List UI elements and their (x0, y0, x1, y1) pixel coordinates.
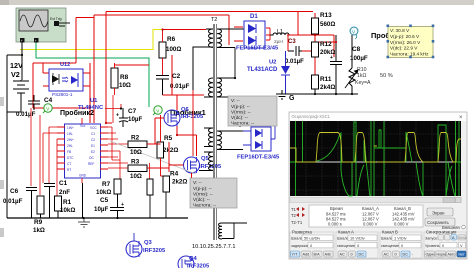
svg-text:C2: C2 (172, 73, 181, 80)
svg-text:R2: R2 (131, 135, 140, 142)
svg-text:Норм.: Норм. (437, 253, 447, 257)
wire: black output bottom rail (287, 93, 358, 95)
shunt reg U2 TL431ACD (247, 51, 290, 94)
resistor R2 10 (128, 135, 147, 157)
svg-text:10kΩ: 10kΩ (60, 207, 75, 214)
ground G (276, 90, 295, 102)
scope screen (290, 121, 461, 196)
IC U1 TL494 (57, 98, 108, 183)
svg-text:560Ω: 560Ω (320, 21, 335, 28)
wire: U1 GND drop (82, 183, 84, 218)
svg-text:R8: R8 (120, 74, 129, 81)
svg-text:Запуск:: Запуск: (425, 237, 438, 241)
svg-text:0.01µF: 0.01µF (16, 111, 36, 118)
svg-text:T2: T2 (291, 213, 297, 218)
svg-text:10kΩ: 10kΩ (96, 189, 111, 196)
svg-text:R6: R6 (167, 36, 176, 43)
svg-text:10Ω: 10Ω (130, 149, 142, 156)
resistor R8 10 (111, 63, 149, 95)
scope panel Канал A (336, 230, 378, 259)
MOSFET Q6 IRF3205 (164, 107, 204, 126)
svg-text:0: 0 (351, 253, 353, 257)
svg-text:Канал_A: Канал_A (362, 206, 379, 211)
svg-text:PS2801-1: PS2801-1 (52, 92, 73, 97)
svg-text:100Ω: 100Ω (166, 46, 181, 53)
svg-text:Проб: Проб (371, 31, 390, 40)
svg-text:50 us/Div: 50 us/Div (304, 236, 320, 241)
svg-text:C8: C8 (352, 46, 361, 53)
svg-text:V(dc): --: V(dc): -- (193, 197, 210, 202)
svg-text:G: G (289, 95, 295, 102)
svg-text:Экран: Экран (432, 210, 445, 215)
svg-text:R13: R13 (320, 12, 332, 19)
wire: black battery/ground runs (7, 42, 22, 218)
wire: red output rail right (266, 13, 336, 75)
svg-text:C4: C4 (44, 97, 53, 104)
svg-text:T2: T2 (211, 17, 217, 23)
svg-text:V: 30.8 V: V: 30.8 V (390, 28, 410, 33)
svg-text:GND: GND (79, 174, 87, 178)
svg-text:1kΩ: 1kΩ (357, 73, 366, 79)
MOSFET Q4 IRF3205 (178, 256, 210, 268)
capacitor C1 2nF (44, 180, 70, 218)
wire: mid verticals to rail (150, 192, 166, 218)
svg-text:VCC: VCC (90, 126, 97, 130)
svg-text:C5: C5 (100, 197, 109, 204)
svg-text:V: V (156, 108, 159, 113)
trace channel B yellow (290, 133, 461, 163)
svg-text:C6: C6 (10, 188, 19, 195)
svg-text:U12: U12 (60, 62, 70, 68)
svg-text:+: + (330, 55, 333, 61)
capacitor C5 10uF (94, 194, 124, 218)
svg-text:10Ω: 10Ω (119, 82, 131, 89)
svg-text:V(p-p): --: V(p-p): -- (193, 186, 212, 191)
svg-text:1 V/Div: 1 V/Div (394, 236, 407, 241)
svg-text:×: × (459, 115, 463, 121)
svg-text:Q4: Q4 (189, 256, 198, 262)
svg-text:Уровень:: Уровень: (425, 244, 441, 248)
MOSFET Q3 IRF3205 (126, 233, 166, 257)
svg-text:1IN-: 1IN- (67, 132, 73, 136)
svg-text:0.000 V: 0.000 V (363, 222, 378, 227)
resistor R7 10k (96, 179, 121, 196)
svg-text:A/B: A/B (325, 253, 332, 257)
svg-text:50 %: 50 % (380, 73, 393, 79)
svg-text:DC: DC (359, 253, 365, 257)
svg-text:E2: E2 (91, 150, 95, 154)
svg-text:2k4Ω: 2k4Ω (320, 84, 335, 91)
svg-text:10µF: 10µF (94, 206, 108, 213)
svg-text:12V: 12V (10, 61, 23, 70)
diode pack D1 FEP16DT top (234, 14, 279, 52)
scope readout table (309, 205, 423, 227)
svg-text:RT: RT (67, 168, 71, 172)
svg-text:Нет: Нет (459, 253, 465, 257)
wire: red 12V rail top-left (33, 12, 313, 124)
optocoupler U12 PS2801-1 (49, 62, 83, 97)
inductor L1 2uH (270, 29, 291, 45)
svg-text:V(rms): --: V(rms): -- (193, 192, 213, 197)
svg-text:Время: Время (330, 206, 343, 211)
svg-text:V: --: V: -- (231, 98, 240, 103)
svg-text:D1: D1 (250, 14, 258, 20)
svg-text:DC: DC (403, 253, 409, 257)
svg-text:Частота: --: Частота: -- (231, 121, 255, 126)
capacitor C4 0.01uF (16, 95, 53, 118)
svg-text:10Ω: 10Ω (130, 173, 142, 180)
svg-text:V(dc): --: V(dc): -- (231, 115, 248, 120)
resistor R5 2k2 (157, 115, 178, 176)
svg-text:Развертка: Развертка (292, 230, 312, 235)
svg-text:FEP16DT-E3/45: FEP16DT-E3/45 (236, 46, 279, 52)
svg-text:Внеш: Внеш (458, 236, 467, 240)
svg-text:Осциллограф-XSC1: Осциллограф-XSC1 (292, 114, 331, 119)
svg-text:C1: C1 (91, 132, 95, 136)
tooltip probe2 values (190, 178, 237, 208)
svg-text:10.10.25.25.7.7.1: 10.10.25.25.7.7.1 (192, 244, 236, 250)
svg-text:R5: R5 (164, 135, 173, 142)
ground (78, 218, 90, 227)
scope scrollbar (290, 198, 461, 203)
svg-text:V: V (46, 106, 49, 111)
selection drag line (110, 141, 196, 174)
resistor R12 20k (312, 41, 336, 57)
svg-text:R7: R7 (102, 181, 111, 188)
wire: red mid column (106, 55, 204, 123)
wire: red TL494 pin drops left (31, 95, 150, 196)
svg-text:REF: REF (88, 162, 94, 166)
probe measurement box (yellow) (387, 25, 435, 59)
svg-text:2k2Ω: 2k2Ω (163, 147, 178, 154)
svg-text:0.01µF: 0.01µF (3, 198, 23, 205)
svg-text:+: + (21, 39, 23, 43)
svg-text:Канал_B: Канал_B (394, 206, 411, 211)
bottom ground rail (7, 217, 188, 219)
scope panel Развертка (290, 230, 334, 259)
svg-text:0.01µF: 0.01µF (285, 59, 304, 65)
svg-text:Q3: Q3 (144, 240, 153, 246)
wire: red Q5/Q6 drains (147, 95, 197, 181)
top toolbar strip (0, 0, 474, 5)
resistor R13 560 (312, 12, 336, 34)
svg-text:AC: AC (340, 253, 346, 257)
svg-text:E1: E1 (91, 144, 95, 148)
svg-text:V(rms): --: V(rms): -- (231, 110, 251, 115)
scope buttons right (427, 208, 453, 216)
svg-text:Key=A: Key=A (355, 80, 371, 86)
junction dots (21, 54, 122, 110)
wire: green scope channel A run (36, 42, 149, 107)
svg-text:V: V (460, 243, 463, 248)
svg-text:C1: C1 (59, 180, 68, 187)
svg-text:OC: OC (89, 156, 94, 160)
capacitor C2 0.01uF (156, 73, 190, 95)
oscilloscope icon XSC1 (16, 8, 70, 43)
svg-text:B/A: B/A (314, 253, 321, 257)
left edge artifacts (0, 97, 4, 106)
svg-text:2k2Ω: 2k2Ω (172, 179, 187, 186)
svg-text:CT: CT (67, 162, 71, 166)
svg-text:R12: R12 (320, 41, 332, 48)
svg-text:V(rms): 26.0 V: V(rms): 26.0 V (390, 40, 421, 45)
svg-text:10µF: 10µF (128, 116, 142, 123)
svg-text:U2: U2 (269, 60, 276, 66)
svg-text:1kΩ: 1kΩ (33, 227, 45, 234)
wire: yellow scope channel B run (20, 30, 162, 50)
diode pack D2 FEP16DT bottom (237, 110, 280, 161)
svg-text:R1: R1 (63, 199, 72, 206)
svg-text:Авто: Авто (448, 253, 456, 257)
tooltip probe1 values (228, 96, 277, 126)
svg-text:Vcc: Vcc (80, 124, 86, 128)
svg-text:V(dc): 22.9 V: V(dc): 22.9 V (390, 46, 418, 51)
svg-text:0.000 s: 0.000 s (328, 222, 342, 227)
svg-text:100µF: 100µF (350, 55, 368, 62)
svg-text:V2: V2 (11, 70, 20, 79)
svg-text:10 V/Div: 10 V/Div (350, 236, 365, 241)
svg-text:Add: Add (303, 253, 310, 257)
svg-text:0.01µF: 0.01µF (170, 83, 190, 90)
svg-text:Один.: Один. (426, 253, 436, 257)
capacitor C8 100uF (330, 35, 368, 94)
svg-text:V(p-p): 20.6 V: V(p-p): 20.6 V (390, 34, 420, 39)
battery V2 12V (10, 61, 29, 96)
svg-text:T2-T1: T2-T1 (291, 220, 303, 225)
svg-text:TL431ACD: TL431ACD (247, 67, 278, 73)
svg-text:Канал A: Канал A (338, 230, 354, 235)
svg-text:R11: R11 (320, 76, 332, 83)
svg-text:Синхронизация: Синхронизация (426, 230, 456, 235)
resistor R4 2k2 (163, 171, 187, 193)
svg-text:20kΩ: 20kΩ (320, 49, 335, 56)
transformer bottom winding (219, 223, 247, 239)
svg-text:Q6: Q6 (181, 107, 190, 113)
svg-text:Канал B: Канал B (382, 230, 398, 235)
svg-text:C3: C3 (288, 39, 296, 45)
probe Пробник2 (43, 104, 94, 117)
scope panel Синхронизация (424, 230, 467, 259)
svg-text:IRF3205: IRF3205 (181, 114, 204, 120)
svg-text:IRF3205: IRF3205 (187, 264, 210, 268)
svg-text:0: 0 (395, 253, 397, 257)
resistor R9 1k (33, 196, 45, 234)
svg-text:V(p-p): --: V(p-p): -- (231, 104, 250, 109)
svg-text:Y/T: Y/T (292, 253, 299, 257)
svg-text:DTC: DTC (67, 156, 74, 160)
svg-text:1IN+: 1IN+ (67, 126, 74, 130)
resistor R1 10k (55, 196, 76, 218)
svg-text:FB: FB (67, 150, 71, 154)
resistor bottom mid A (147, 179, 153, 195)
svg-text:+: + (116, 113, 119, 119)
capacitor C6 0.01uF (3, 188, 37, 219)
svg-text:T1: T1 (291, 207, 297, 212)
resistor R3 10 (128, 159, 147, 181)
MOSFET Q5 IRF3205 (184, 156, 223, 173)
svg-text:IRF3205: IRF3205 (143, 248, 166, 254)
svg-text:Частота: --: Частота: -- (193, 203, 217, 208)
svg-text:L1: L1 (277, 29, 283, 35)
transformer T2 (199, 17, 244, 240)
resistor R11 2k4 (312, 75, 336, 94)
svg-text:2µH: 2µH (274, 39, 283, 45)
resistor R6 100 (159, 30, 206, 76)
potentiometer R10 1k (345, 35, 393, 94)
svg-text:R4: R4 (170, 171, 179, 178)
svg-text:AC: AC (384, 253, 390, 257)
svg-text:R3: R3 (131, 159, 140, 166)
svg-text:C7: C7 (128, 108, 137, 115)
svg-text:R9: R9 (34, 219, 43, 226)
svg-text:TL494NC: TL494NC (78, 105, 104, 111)
scope panel Канал B (380, 230, 422, 259)
capacitor C3 0.01uF (285, 39, 304, 65)
svg-text:Ext Trig: Ext Trig (50, 17, 62, 21)
trace channel A green (290, 121, 461, 196)
svg-text:C2: C2 (91, 138, 95, 142)
svg-text:2IN-: 2IN- (67, 144, 73, 148)
svg-text:IRF3205: IRF3205 (199, 164, 222, 170)
probe Проб voltage (350, 27, 390, 40)
svg-text:+: + (35, 39, 37, 43)
svg-text:FEP16DT-E3/45: FEP16DT-E3/45 (237, 155, 280, 161)
svg-text:V: --: V: -- (193, 180, 202, 185)
wire: transformer primary left drop (193, 47, 213, 90)
probe Пробник1 (153, 106, 206, 117)
oscilloscope window XSC1 (289, 112, 467, 259)
svg-text:U1: U1 (90, 98, 98, 104)
svg-text:2IN+: 2IN+ (67, 138, 74, 142)
capacitor C7 10uF (116, 104, 142, 127)
svg-text:2nF: 2nF (59, 189, 70, 196)
svg-text:0.000 V: 0.000 V (394, 222, 409, 227)
